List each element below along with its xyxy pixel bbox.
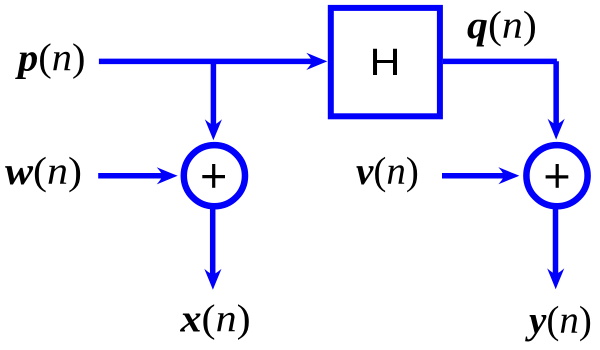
wire H output to corner bbox=[443, 59, 557, 65]
svg-text:H: H bbox=[369, 40, 400, 83]
arrowhead output y(n) bbox=[547, 268, 564, 289]
arrowhead w(n) into left adder bbox=[157, 167, 178, 184]
node label y(n) bbox=[525, 299, 592, 342]
plus sign in right adder bbox=[546, 164, 569, 188]
arrowhead into right adder top bbox=[548, 119, 565, 140]
arrowhead v(n) into right adder bbox=[498, 167, 519, 184]
node label q(n) bbox=[467, 3, 537, 46]
svg-text:w(n): w(n) bbox=[5, 149, 82, 192]
node label p(n) bbox=[15, 36, 85, 79]
left adder circle bbox=[184, 145, 245, 206]
svg-text:p(n): p(n) bbox=[15, 36, 85, 79]
node label w(n) bbox=[5, 149, 82, 192]
plus sign in left adder bbox=[202, 164, 225, 188]
wire p(n) to block H bbox=[99, 59, 313, 65]
arrowhead into block H bbox=[306, 53, 327, 70]
wire right adder output down to y(n) bbox=[553, 207, 559, 276]
node label v(n) bbox=[356, 150, 419, 193]
svg-text:y(n): y(n) bbox=[525, 299, 592, 342]
block H (system box) bbox=[331, 8, 440, 116]
svg-text:x(n): x(n) bbox=[179, 297, 250, 340]
wire w(n) to left adder bbox=[98, 173, 163, 179]
node label x(n) bbox=[179, 297, 250, 340]
svg-text:q(n): q(n) bbox=[467, 3, 537, 46]
arrowhead output x(n) bbox=[204, 269, 221, 290]
label H inside block bbox=[369, 40, 400, 83]
wire left adder output down to x(n) bbox=[210, 207, 216, 276]
arrowhead into left adder top bbox=[205, 119, 222, 140]
wire corner down to right adder bbox=[553, 61, 559, 126]
wire v(n) to right adder bbox=[442, 173, 505, 179]
right adder circle bbox=[526, 145, 587, 206]
svg-text:v(n): v(n) bbox=[356, 150, 419, 193]
wire branch down from p(n) line to left adder bbox=[211, 61, 217, 126]
